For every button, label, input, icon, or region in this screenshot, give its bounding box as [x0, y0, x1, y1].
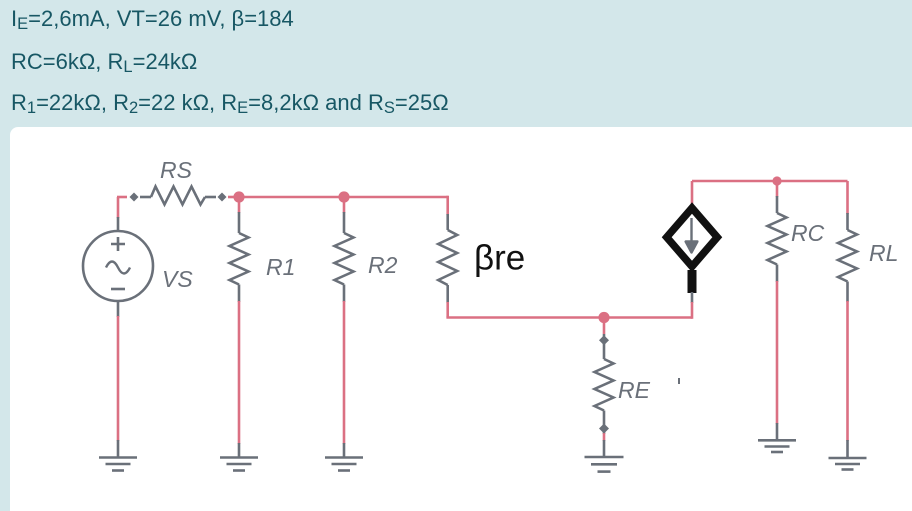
- current source bottom stub (black): [688, 270, 697, 293]
- ground VS: [99, 440, 137, 471]
- resistor RL: [838, 181, 857, 441]
- terminal diamond RE top: [599, 335, 609, 345]
- node B junction dot: [338, 191, 349, 202]
- wire top right rail (pink): [692, 180, 848, 183]
- wire bottom rail bre to current source (pink): [446, 316, 692, 319]
- wire current source to bottom rail (pink): [691, 302, 694, 319]
- resistor RS: [140, 187, 216, 205]
- wire corner to RS left terminal (pink): [117, 196, 127, 199]
- svg-text:RL: RL: [869, 240, 898, 266]
- white schematic panel: [10, 127, 912, 511]
- node A junction dot: [233, 191, 244, 202]
- resistor RE: [595, 318, 614, 442]
- resistor bre: [438, 196, 457, 318]
- ground R2: [325, 443, 363, 471]
- node D junction dot: [772, 176, 781, 185]
- voltage source VS: [83, 231, 153, 301]
- ground RE: [585, 440, 624, 472]
- terminal diamond RE bottom: [599, 424, 609, 434]
- current source bottom stub (gray): [691, 292, 694, 303]
- wire top rail node A to corner of bre (pink): [239, 196, 448, 199]
- wire VS top vertical (gray stub): [117, 217, 120, 231]
- stray tick mark: [678, 378, 680, 384]
- wire RS to node A (pink): [228, 196, 239, 199]
- wire VS bottom (pink): [117, 316, 120, 441]
- svg-text:VS: VS: [162, 266, 193, 292]
- dependent current source diamond: [667, 208, 718, 267]
- ground R1: [220, 443, 258, 471]
- resistor RC: [768, 181, 787, 424]
- node C junction dot: [598, 312, 609, 323]
- svg-text:R1: R1: [266, 254, 295, 280]
- terminal diamond RS left: [130, 193, 139, 202]
- terminal diamond RS right: [218, 193, 227, 202]
- wire VS bottom (gray stub): [117, 301, 120, 317]
- svg-text:RS: RS: [160, 157, 193, 183]
- svg-text:βre: βre: [474, 239, 525, 278]
- dependent current source wire top (pink): [691, 181, 694, 204]
- resistor R1: [230, 197, 249, 444]
- resistor R2: [335, 197, 354, 444]
- ground RC: [758, 423, 796, 452]
- wire VS top vertical (pink): [117, 197, 120, 218]
- ground RL: [829, 440, 867, 470]
- svg-text:R2: R2: [368, 252, 398, 278]
- svg-text:RE: RE: [618, 377, 651, 403]
- svg-text:RC: RC: [791, 220, 825, 246]
- current source arrow: [686, 218, 698, 253]
